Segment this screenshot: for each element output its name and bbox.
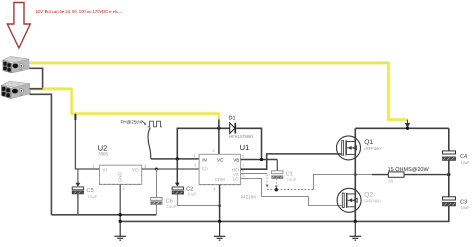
wire: arrow terminal onto top rail [407,120,409,124]
red annotation arrow [7,3,30,49]
wire: C1 bottom dashed to VS net [275,179,277,186]
battery block B1 (3D module) [3,56,30,73]
junction dot top rail [406,127,409,130]
junction dot COM rail [218,220,221,223]
battery block B2 (3D module) [1,81,30,98]
wire: right rail bottom [448,206,450,222]
ground symbol 3 [350,221,362,240]
wire: C2 return to COM [178,194,220,205]
svg-text:10uF: 10uF [461,205,471,210]
wire: half-bridge column [354,128,356,221]
svg-text:10uF: 10uF [187,192,197,197]
wire: VS net to load row [314,175,372,190]
wire: main ground rail [120,220,449,222]
junction dot rail [119,220,122,223]
wire: IN net horizontal to U1 [151,158,199,160]
svg-text:3: 3 [144,164,146,168]
wire: right rail top [448,128,450,151]
svg-text:SD: SD [202,167,209,172]
svg-text:IRFP460: IRFP460 [364,146,381,151]
svg-text:10uF: 10uF [88,194,98,199]
junction dot midpoint [354,173,357,176]
svg-text:VI: VI [102,168,107,174]
svg-text:2: 2 [194,164,196,168]
wire: U2 VO to U1 SD [142,168,199,170]
transistor Q2 [337,188,381,212]
yellow halo [29,62,407,120]
diode D1 [229,116,254,139]
capacitor C6 [151,197,177,209]
svg-text:IN: IN [202,157,207,162]
svg-text:VC: VC [217,157,224,162]
svg-text:1: 1 [93,164,95,168]
junction dot IN/C2 [176,157,179,160]
junction dot U2 gnd [119,213,122,216]
wire: C5 top connection with arrow [77,169,79,183]
svg-text:15: 15 [389,178,394,183]
svg-text:7: 7 [242,164,244,168]
svg-text:8: 8 [242,154,244,158]
wire: B2 negative down [30,94,52,215]
wire: HO to Q1 gate [241,154,342,169]
wire: VC stub [218,119,220,154]
wire: ground jog [119,215,121,222]
wire: C2 top connection with arrow [176,159,178,183]
wire: VS net dashed horizontal [267,189,314,191]
annotation small arrow [142,120,146,124]
wire: IN riser [177,128,229,159]
svg-text:IR2184: IR2184 [241,195,256,200]
capacitor C2 [172,186,197,196]
capacitor C4 [443,151,471,165]
capacitor C1 [272,171,297,182]
junction dot VC [217,127,220,130]
wire: C6 bottom to ground segment [156,205,158,215]
svg-text:10uF: 10uF [287,177,297,182]
svg-text:COM: COM [215,177,226,182]
svg-text:HFA15TB60: HFA15TB60 [229,134,253,139]
junction dot C2 return [218,204,221,207]
svg-text:U1: U1 [240,143,249,152]
capacitor C3 [443,197,471,210]
wire: D1 cathode to VB [236,128,261,159]
wire: B1 negative to B2 positive [30,68,43,89]
svg-text:VB: VB [233,157,239,162]
svg-text:2: 2 [123,187,125,191]
svg-text:VO: VO [132,168,139,174]
annotation freehand stroke to IN wire [148,128,151,159]
regulator U2 [93,143,147,190]
svg-text:3: 3 [212,149,214,153]
wire: +12V yellow tap [31,88,72,90]
wire: right rail mid [448,160,450,196]
wire: LO to Q2 gate [241,179,343,206]
ground symbol 2 [214,221,226,240]
wire: VS pin dashed link [241,173,268,175]
junction dot Q2 source rail [354,220,357,223]
svg-text:10uF: 10uF [461,160,471,165]
svg-text:7805: 7805 [98,152,109,157]
wire: C5 bottom to ground segment [77,194,79,215]
wire: 12V drop to U2 VI [75,114,99,169]
junction dot VS net [275,188,278,191]
svg-text:10uF: 10uF [167,204,177,209]
svg-text:12V. But can be 24, 50, 100 o: 12V. But can be 24, 50, 100 ou 170VDC e … [36,9,123,14]
annotation square-wave glyph [148,121,163,127]
wire: yellow down to bridge rail [389,62,408,120]
svg-text:IRFP460: IRFP460 [364,199,381,204]
wire: +HV yellow top rail [29,62,389,64]
wire: C6 top connection [156,169,158,197]
svg-text:Q2: Q2 [364,191,373,198]
transistor Q1 [337,136,382,160]
wire: COM to ground [219,185,221,222]
svg-text:FH@25t/w: FH@25t/w [121,120,143,125]
junction dot C divider [447,173,450,176]
capacitor C5 [72,187,97,199]
wire: U2 GND stub [119,184,121,214]
svg-text:4: 4 [213,187,215,191]
svg-text:1: 1 [193,154,195,158]
wire: top bridge rail [355,127,449,129]
wire: VB pin to C1 [241,159,278,161]
svg-text:LO: LO [233,177,239,182]
wire: left ground segment [51,214,156,216]
junction dot C6 top [155,168,158,171]
junction dot VB [260,158,263,161]
resistor R load 15 ohms [372,167,449,183]
svg-text:D1: D1 [229,116,236,122]
wire: C1 top drop [276,160,278,171]
ground symbol 1 [114,221,126,240]
IC U1 IR2184 [193,143,256,200]
svg-text:Q1: Q1 [364,139,373,146]
svg-text:GND: GND [118,171,123,182]
